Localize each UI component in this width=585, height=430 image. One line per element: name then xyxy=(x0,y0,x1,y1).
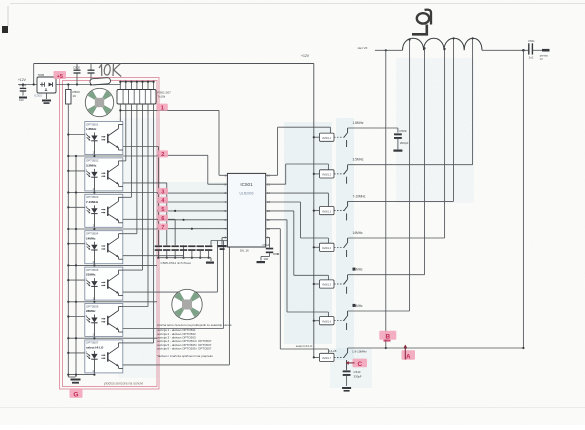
svg-text:1: 1 xyxy=(161,105,164,111)
svg-text:B: B xyxy=(385,334,390,341)
svg-text:OPT0504: OPT0504 xyxy=(86,232,99,236)
svg-text:+12V: +12V xyxy=(18,78,27,82)
svg-text:3.5MHz: 3.5MHz xyxy=(86,164,97,168)
svg-text:pozicija 6 - aktivan OPTO506 i: pozicija 6 - aktivan OPTO506 i OPTO507 xyxy=(157,347,212,351)
svg-text:1.8MHz: 1.8MHz xyxy=(86,127,97,131)
svg-text:5: 5 xyxy=(161,207,164,213)
svg-text:3: 3 xyxy=(161,189,164,195)
svg-text:C509: C509 xyxy=(399,129,407,133)
svg-text:izl: izl xyxy=(540,57,543,61)
svg-text:OPT0506: OPT0506 xyxy=(86,304,99,308)
svg-text:C: C xyxy=(357,361,362,368)
svg-text:6: 6 xyxy=(161,216,164,222)
svg-text:+12V: +12V xyxy=(301,54,310,58)
svg-text:200pF: 200pF xyxy=(400,141,409,145)
svg-text:OPT0505: OPT0505 xyxy=(86,268,99,272)
svg-text:100: 100 xyxy=(264,257,269,261)
svg-text:7-10MHz: 7-10MHz xyxy=(353,194,366,198)
svg-text:C505-C511 4n7x7kom: C505-C511 4n7x7kom xyxy=(161,261,192,265)
svg-text:DIL 16: DIL 16 xyxy=(240,249,249,253)
svg-text:28MHz: 28MHz xyxy=(86,309,96,313)
svg-text:7: 7 xyxy=(161,225,164,231)
svg-text:7-10MHz: 7-10MHz xyxy=(86,200,99,204)
svg-text:C501: C501 xyxy=(528,39,535,43)
svg-text:Re501.6: Re501.6 xyxy=(322,321,331,323)
svg-text:1.8MHz: 1.8MHz xyxy=(353,121,364,125)
svg-text:Re501.2: Re501.2 xyxy=(322,175,331,177)
svg-text:OPT0502: OPT0502 xyxy=(86,159,99,163)
svg-text:ULN2003: ULN2003 xyxy=(240,192,254,196)
svg-text:A: A xyxy=(406,354,411,361)
svg-text:select HI LO: select HI LO xyxy=(296,344,313,348)
svg-text:OPT0503: OPT0503 xyxy=(86,195,99,199)
svg-text:OPT0501: OPT0501 xyxy=(86,122,99,126)
svg-text:pločica senzora na osnovi: pločica senzora na osnovi xyxy=(104,382,143,386)
svg-text:+5: +5 xyxy=(57,74,63,80)
svg-text:IC501: IC501 xyxy=(240,182,253,187)
svg-text:1K: 1K xyxy=(73,94,77,98)
svg-text:Re501.4: Re501.4 xyxy=(322,248,331,250)
svg-text:14MHz: 14MHz xyxy=(353,231,364,235)
svg-text:2n2: 2n2 xyxy=(529,55,534,59)
svg-text:C510: C510 xyxy=(354,370,361,374)
svg-text:14MHz: 14MHz xyxy=(86,236,96,240)
svg-text:istočna letno za lezoru na pro: istočna letno za lezoru na proklopniki z… xyxy=(157,323,232,327)
svg-text:Re501.7: Re501.7 xyxy=(322,358,331,360)
svg-text:*aktivan i znači da optičnemi: *aktivan i znači da optičnemi ima prepre… xyxy=(157,354,214,358)
svg-text:Re501.1: Re501.1 xyxy=(322,138,331,140)
svg-text:G: G xyxy=(73,392,78,399)
svg-text:7805: 7805 xyxy=(38,73,45,77)
svg-text:14-28: 14-28 xyxy=(329,349,337,353)
svg-text:3.5MHz: 3.5MHz xyxy=(353,158,364,162)
svg-text:330pF: 330pF xyxy=(354,375,362,379)
svg-text:C502: C502 xyxy=(73,66,80,70)
svg-text:Re501.5: Re501.5 xyxy=(322,285,331,287)
svg-text:2: 2 xyxy=(161,152,164,158)
svg-text:Re501.3: Re501.3 xyxy=(322,211,331,213)
svg-text:4: 4 xyxy=(161,198,164,204)
svg-text:IC502: IC502 xyxy=(34,94,42,98)
svg-text:1.8-10MHz: 1.8-10MHz xyxy=(352,349,367,353)
svg-text:OPT0507: OPT0507 xyxy=(86,341,99,345)
svg-text:select HI LO: select HI LO xyxy=(86,346,104,350)
svg-text:C504: C504 xyxy=(263,243,270,247)
svg-text:21MHz: 21MHz xyxy=(86,273,96,277)
svg-text:vlez VF: vlez VF xyxy=(358,46,368,50)
svg-text:7x10k: 7x10k xyxy=(158,95,166,99)
svg-text:10n: 10n xyxy=(19,98,24,102)
